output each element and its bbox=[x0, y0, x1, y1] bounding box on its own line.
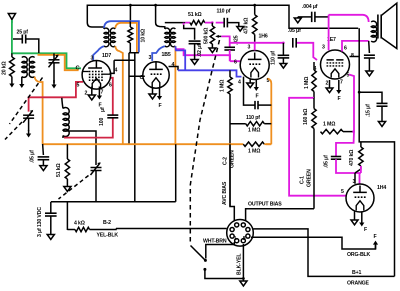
wire conn left B-2 bbox=[116, 228, 227, 230]
filament 1B5 bbox=[157, 88, 162, 100]
wire 1D7 plate riser bbox=[114, 53, 135, 202]
resistor 51k det bbox=[190, 20, 205, 24]
wire magenta 1E7 plate6 bbox=[342, 41, 369, 52]
speaker bbox=[378, 3, 397, 48]
svg-text:1 MΩ: 1 MΩ bbox=[248, 128, 260, 134]
ground 110pf det filter bbox=[280, 64, 287, 69]
label C-2 bbox=[223, 157, 229, 165]
capacitor .15uf bbox=[359, 92, 387, 121]
svg-text:BLK-YEL: BLK-YEL bbox=[237, 253, 243, 275]
svg-text:1 MΩ: 1 MΩ bbox=[304, 77, 310, 89]
svg-text:1D7: 1D7 bbox=[102, 53, 111, 59]
ground BLK-YEL bbox=[240, 281, 247, 286]
label pin5 1H6 bbox=[267, 78, 270, 84]
capacitor .05 coupling bbox=[293, 38, 296, 48]
label GREEN C-2 bbox=[230, 150, 236, 168]
wire orange T2 secondary bottom drop bbox=[174, 46, 176, 144]
svg-text:F: F bbox=[338, 96, 341, 102]
svg-text:.05 μf: .05 μf bbox=[324, 155, 330, 168]
label OUTPUT BIAS bbox=[248, 202, 282, 208]
capacitor 110pf det filter bbox=[278, 43, 290, 64]
label 25 pf bbox=[17, 30, 29, 36]
svg-text:6: 6 bbox=[344, 46, 347, 52]
svg-text:F: F bbox=[374, 234, 377, 240]
wire red osc feedback bbox=[64, 78, 113, 138]
svg-text:110 pf: 110 pf bbox=[217, 9, 231, 15]
svg-text:C-2: C-2 bbox=[223, 157, 229, 165]
label pin7 1E7 bbox=[340, 80, 343, 86]
wire blue T1 to 1D7 grid bbox=[93, 46, 104, 61]
svg-text:F: F bbox=[364, 227, 367, 233]
wire orange 1H6 pin5 bbox=[43, 79, 272, 145]
svg-text:25 pf: 25 pf bbox=[17, 30, 29, 36]
resistor 1M grid 1E7 bbox=[312, 62, 316, 98]
label GREEN C-1 bbox=[307, 169, 313, 187]
svg-text:.004 μf: .004 μf bbox=[302, 4, 318, 10]
dashed gang tuning 1 bbox=[10, 78, 43, 125]
wire 1E7 screen pin8 bbox=[350, 56, 360, 58]
resistor 20k antenna bbox=[10, 53, 15, 79]
svg-text:4: 4 bbox=[115, 68, 118, 74]
svg-text:3: 3 bbox=[149, 55, 152, 61]
svg-text:7: 7 bbox=[340, 80, 343, 86]
transformer antenna secondary coil bbox=[29, 57, 34, 78]
label pin4 1H6 bbox=[238, 80, 241, 86]
tube 1E7 electrodes bbox=[327, 60, 344, 78]
antenna bbox=[8, 14, 15, 24]
ground 20k bbox=[9, 80, 14, 88]
resistor 1M det load 2 bbox=[243, 142, 271, 146]
ground 1D7 pin2 bbox=[88, 87, 95, 101]
label .025 bbox=[234, 35, 240, 45]
filament 1H6 bbox=[254, 79, 259, 91]
svg-text:4: 4 bbox=[238, 80, 241, 86]
wire orange antenna AVC bbox=[35, 55, 79, 144]
svg-text:100: 100 bbox=[99, 118, 105, 126]
wire T2 top link bbox=[165, 22, 186, 24]
dashed gang volume bbox=[190, 40, 219, 243]
ground tuning C1a bbox=[51, 80, 56, 89]
svg-text:1B5: 1B5 bbox=[162, 52, 171, 58]
wire 1B5 plate stub bbox=[169, 67, 179, 71]
label AVC BIAS bbox=[222, 181, 228, 205]
wire magenta IF2 det bbox=[184, 23, 225, 25]
label pin6 1E7 bbox=[344, 46, 347, 52]
svg-text:6: 6 bbox=[109, 83, 112, 89]
label 1D7 bbox=[102, 53, 111, 59]
label pin5 1E7 bbox=[347, 73, 350, 79]
label pin3 1D7 bbox=[91, 56, 94, 62]
wire magenta 1B5 line bbox=[175, 49, 241, 61]
svg-text:2: 2 bbox=[326, 81, 329, 87]
svg-text:470 kΩ: 470 kΩ bbox=[244, 18, 250, 34]
svg-text:8: 8 bbox=[243, 236, 246, 242]
svg-text:B+1: B+1 bbox=[352, 270, 361, 276]
dashed gang tuning 3 bbox=[59, 176, 89, 200]
transformer T1 secondary coil bbox=[110, 28, 115, 47]
label F 1H4 bbox=[364, 227, 367, 233]
wire 1B5 C to AVC bbox=[129, 53, 145, 144]
svg-text:C-1: C-1 bbox=[300, 176, 306, 184]
wire blue T1 wrap bbox=[104, 21, 139, 52]
label pin4 1E7 bbox=[314, 66, 317, 72]
node junction top rail to IF2 bbox=[154, 4, 157, 23]
resistor 1M 1H4 grid bbox=[321, 129, 354, 133]
arrow F ORG-BLK bbox=[373, 241, 378, 249]
capacitor osc grid 100 bbox=[107, 115, 118, 118]
tube 1H6 electrodes bbox=[248, 53, 262, 78]
filament 1H4 bbox=[359, 212, 364, 227]
label YEL-BLK bbox=[97, 233, 119, 239]
ground antenna primary bbox=[19, 77, 24, 88]
svg-text:ORG-BLK: ORG-BLK bbox=[347, 252, 371, 258]
filament 1E7 pin7 bbox=[336, 80, 341, 94]
svg-text:F: F bbox=[159, 103, 162, 109]
label pin3 1H6 bbox=[248, 45, 251, 51]
ground 110pf det bbox=[237, 27, 244, 32]
transformer T1 primary coil bbox=[87, 23, 109, 47]
svg-text:3: 3 bbox=[322, 45, 325, 51]
node B+ cap15 bbox=[358, 91, 361, 94]
label 160k bbox=[303, 109, 309, 125]
label 1M load2 bbox=[248, 149, 260, 155]
connector pins bbox=[230, 223, 250, 243]
ground pot bbox=[209, 48, 216, 53]
pot wiper arrow bbox=[215, 35, 221, 38]
label 20 kOhm bbox=[2, 61, 8, 75]
label 1M 1H4 bbox=[323, 122, 335, 128]
ground output bypass bbox=[366, 71, 373, 76]
resistor 1M AVC bbox=[228, 70, 235, 220]
svg-text:4 kΩ: 4 kΩ bbox=[74, 221, 85, 227]
switch contacts bbox=[203, 259, 207, 271]
wire blue T2 to 1B5 grid bbox=[152, 46, 165, 61]
wire conn bottom left switch bbox=[206, 242, 235, 259]
label 3 uf 130 VDC bbox=[37, 207, 43, 237]
label B+1 bbox=[352, 270, 361, 276]
label 10 kOhm bbox=[141, 29, 147, 43]
label WHT-BRN bbox=[203, 239, 227, 245]
tube 1D7 envelope bbox=[82, 61, 111, 90]
svg-text:51 kΩ: 51 kΩ bbox=[188, 12, 202, 18]
svg-text:3: 3 bbox=[248, 45, 251, 51]
label .15 uf bbox=[366, 104, 372, 117]
label pin8 conn bbox=[243, 236, 246, 242]
svg-text:110 pf: 110 pf bbox=[246, 115, 260, 121]
label 1H6 bbox=[259, 34, 268, 40]
label F 1E7 bbox=[338, 96, 341, 102]
label F 1H6 bbox=[256, 94, 259, 100]
label pin5 1H4 bbox=[341, 189, 344, 195]
svg-text:.02 μf: .02 μf bbox=[197, 44, 203, 57]
label C-1 bbox=[300, 176, 306, 184]
tube 1B5 envelope bbox=[143, 62, 169, 88]
label 470k det bbox=[244, 18, 250, 34]
ground .05 AVC bbox=[40, 166, 47, 171]
svg-text:3: 3 bbox=[353, 179, 356, 185]
capacitor .004 tone bbox=[298, 12, 329, 22]
wire BLK-YEL bbox=[242, 244, 244, 281]
label pin3 1B5 bbox=[149, 55, 152, 61]
label cap 02 bbox=[197, 44, 203, 57]
switch arm bbox=[191, 246, 206, 261]
label B-2 bbox=[103, 220, 111, 226]
capacitor .025 coupling bbox=[224, 47, 235, 50]
label pin6 1D7 bbox=[109, 83, 112, 89]
label ORG-BLK bbox=[347, 252, 371, 258]
capacitor 1B5 bypass bbox=[184, 25, 201, 60]
wire magenta 1H4 grid bbox=[360, 166, 361, 184]
label 100 cap bbox=[99, 107, 106, 126]
ground 1E7 pin2 bbox=[326, 80, 333, 93]
wire orange T1 wrap bbox=[115, 23, 137, 53]
tube 1H6 envelope bbox=[240, 51, 269, 80]
label C green grid bbox=[76, 66, 81, 72]
label 1M grid 1E7 bbox=[304, 77, 310, 89]
potentiometer 500k volume bbox=[210, 23, 214, 48]
svg-text:ORANGE: ORANGE bbox=[347, 281, 370, 287]
svg-text:F: F bbox=[256, 94, 259, 100]
svg-text:10 kΩ: 10 kΩ bbox=[141, 29, 147, 43]
svg-text:110 pf: 110 pf bbox=[271, 51, 277, 65]
svg-text:6: 6 bbox=[234, 60, 237, 66]
capacitor .05 AVC bbox=[38, 144, 50, 166]
svg-text:5: 5 bbox=[347, 73, 350, 79]
label 500k pot bbox=[204, 28, 210, 44]
wire magenta 1E7 plate3 bbox=[329, 15, 369, 50]
label 110 pf lower bbox=[246, 115, 260, 121]
ground .15uf bbox=[378, 122, 385, 127]
svg-text:500 kΩ: 500 kΩ bbox=[204, 28, 210, 44]
transformer output primary bbox=[371, 21, 376, 42]
label F ORG-BLK bbox=[374, 234, 377, 240]
filament 1D7 pin7 bbox=[97, 87, 102, 100]
wire AVC BIAS bbox=[229, 144, 231, 206]
svg-text:1H4: 1H4 bbox=[377, 185, 386, 191]
svg-text:1: 1 bbox=[234, 236, 237, 242]
capacitor 25pf bbox=[13, 35, 39, 54]
resistor 470k det plate bbox=[252, 15, 257, 43]
svg-text:.05 μf: .05 μf bbox=[30, 150, 36, 163]
label 1H4 bbox=[377, 185, 386, 191]
svg-text:B-2: B-2 bbox=[103, 220, 111, 226]
svg-text:OUTPUT BIAS: OUTPUT BIAS bbox=[248, 202, 282, 208]
label pin7 1D7 bbox=[101, 90, 104, 96]
label 1M load1 bbox=[248, 128, 260, 134]
node BLK-YEL bbox=[242, 277, 245, 280]
label .004 uf bbox=[302, 4, 318, 10]
transformer T2 secondary coil bbox=[171, 28, 176, 47]
transformer T2 primary coil bbox=[156, 23, 170, 47]
label .05 uf coupling bbox=[288, 28, 301, 34]
variable capacitor tuning C1b bbox=[23, 110, 34, 131]
svg-text:1 MΩ: 1 MΩ bbox=[220, 80, 226, 92]
label pin4 1D7 bbox=[115, 68, 118, 74]
wire top bus rail bbox=[87, 5, 358, 28]
node det plate bbox=[253, 42, 284, 45]
label 4 kOhm bbox=[74, 221, 85, 227]
svg-text:1H6: 1H6 bbox=[259, 34, 268, 40]
label C 1B5 bbox=[140, 75, 145, 81]
label 1M AVC bbox=[220, 80, 226, 92]
resistor 10k IF1 bbox=[128, 21, 139, 52]
svg-text:1 MΩ: 1 MΩ bbox=[248, 149, 260, 155]
wire magenta det plate bbox=[230, 43, 317, 60]
svg-text:470 kΩ: 470 kΩ bbox=[349, 150, 355, 166]
wire conn right1 bbox=[253, 229, 394, 277]
label F 1B5 bbox=[159, 103, 162, 109]
svg-text:1 MΩ: 1 MΩ bbox=[323, 122, 335, 128]
svg-text:5: 5 bbox=[77, 83, 80, 89]
coil oscillator bbox=[62, 98, 69, 138]
wire osc tap to padder bbox=[63, 131, 96, 165]
svg-text:2: 2 bbox=[85, 91, 88, 97]
node junction top rail to R 470k bbox=[253, 4, 256, 15]
node 1M magenta bbox=[352, 130, 355, 133]
label 51 kOhm top bbox=[188, 12, 202, 18]
capacitor 110pf osc filter bbox=[244, 77, 272, 110]
svg-text:YEL-BLK: YEL-BLK bbox=[97, 233, 119, 239]
ground 1H6 bbox=[247, 79, 254, 88]
label pin1 conn bbox=[234, 236, 237, 242]
wire 1D7 plate pin4 bbox=[110, 60, 115, 73]
connector socket bbox=[227, 220, 254, 247]
transformer antenna primary coil bbox=[22, 57, 27, 78]
svg-text:.15 μf: .15 μf bbox=[366, 104, 372, 117]
wire switch to ground bbox=[205, 269, 244, 278]
capacitor output bypass bbox=[364, 41, 375, 71]
dashed gang tuning 2 bbox=[5, 122, 22, 140]
ground 3uf bbox=[47, 235, 54, 240]
svg-text:7: 7 bbox=[101, 90, 104, 96]
label pin3 1H4 bbox=[353, 179, 356, 185]
label pin4 1B5 bbox=[172, 62, 175, 68]
svg-text:5: 5 bbox=[341, 189, 344, 195]
ground 1B5 bypass cap bbox=[191, 60, 198, 65]
tube 1H4 envelope bbox=[346, 184, 374, 212]
label 470k 1H4 bbox=[349, 150, 355, 166]
label ORANGE bbox=[347, 281, 370, 287]
resistor 160k bbox=[312, 98, 316, 209]
capacitor 3uf bbox=[45, 202, 57, 235]
label 51k AVC bbox=[56, 163, 62, 177]
wire B+ vertical bbox=[359, 28, 394, 276]
label 110pf det filter bbox=[271, 51, 277, 65]
label .05 C1 bbox=[324, 155, 330, 168]
ground 1B5 center bbox=[149, 88, 156, 99]
label pin6 1H6 bbox=[234, 60, 237, 66]
wire magenta .025 to grid bbox=[229, 50, 231, 61]
ground tuning C1b bbox=[26, 130, 31, 138]
wire magenta 1E7 pin5 bbox=[336, 75, 354, 157]
node junction top rail to IF1 bbox=[129, 4, 132, 22]
ground 1H4 bbox=[351, 212, 358, 225]
label 1E7 bbox=[327, 37, 336, 43]
label .05 uf AVC bbox=[30, 150, 36, 163]
svg-text:160 kΩ: 160 kΩ bbox=[303, 109, 309, 125]
wire red oscillator grid bbox=[29, 82, 83, 112]
resistor 470k 1H4 bbox=[355, 142, 363, 184]
label pin3 1E7 bbox=[322, 45, 325, 51]
svg-text:3: 3 bbox=[91, 56, 94, 62]
svg-text:3 μf 130 VDC: 3 μf 130 VDC bbox=[37, 207, 43, 237]
resistor 1M det load 1 bbox=[230, 122, 271, 126]
svg-text:.05 μf: .05 μf bbox=[288, 28, 301, 34]
wire green antenna lead bbox=[12, 20, 81, 68]
tube 1D7 electrodes bbox=[82, 61, 110, 89]
wire blue diode AVC line bbox=[175, 46, 241, 77]
wire magenta pot wiper bbox=[221, 36, 229, 47]
label 110 pf top bbox=[217, 9, 231, 15]
label F 1D7 bbox=[99, 103, 102, 109]
capacitor 110pf det bbox=[224, 18, 239, 28]
label 1B5 bbox=[162, 52, 171, 58]
svg-text:51 kΩ: 51 kΩ bbox=[56, 163, 62, 177]
label pin5 1D7 bbox=[77, 83, 80, 89]
node magenta 51k bbox=[211, 21, 214, 24]
variable capacitor padder C1c bbox=[91, 162, 102, 201]
svg-text:20 kΩ: 20 kΩ bbox=[2, 61, 8, 75]
variable capacitor tuning C1a bbox=[49, 53, 60, 83]
svg-text:GREEN: GREEN bbox=[307, 169, 313, 187]
wire OUTPUT BIAS bbox=[246, 209, 314, 221]
ground 51k AVC bbox=[64, 187, 71, 192]
svg-text:AVC BIAS: AVC BIAS bbox=[222, 181, 228, 205]
label pin2 1E7 bbox=[326, 81, 329, 87]
wire conn right2 ORG-BLK bbox=[251, 237, 376, 249]
label pin2 1D7 bbox=[85, 91, 88, 97]
label pin8 1E7 bbox=[351, 53, 354, 59]
svg-text:WHT-BRN: WHT-BRN bbox=[203, 239, 227, 245]
wire magenta C-1 bbox=[289, 98, 346, 196]
resistor 51k AVC bbox=[65, 144, 69, 186]
tube 1H4 electrodes bbox=[353, 186, 367, 211]
tube 1E7 envelope bbox=[321, 50, 350, 79]
capacitor .05 C1 bbox=[331, 157, 361, 174]
resistor 4k bbox=[67, 227, 116, 231]
ground .004 bbox=[294, 17, 301, 23]
tube 1B5 electrodes bbox=[149, 63, 163, 88]
label BLK-YEL bbox=[237, 253, 243, 275]
wire orange IF1 secondary to AVC bbox=[115, 46, 123, 144]
wire B-2 rail bbox=[51, 144, 176, 230]
svg-text:F: F bbox=[99, 103, 102, 109]
